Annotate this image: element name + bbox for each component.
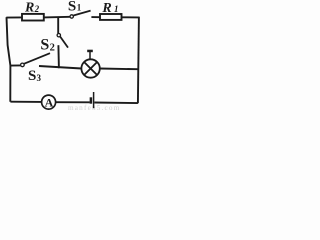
wire ammeter to battery [56, 101, 90, 103]
svg-text:A: A [45, 95, 54, 109]
ammeter A [42, 95, 56, 109]
switch S3 blade [24, 53, 50, 64]
left vertical wire [7, 17, 11, 102]
wire R1 to top-right corner [122, 16, 140, 18]
lamp X diagonals [84, 62, 97, 75]
lamp stub T-bar [87, 50, 93, 53]
switch S1 contact circle [70, 15, 73, 18]
switch S1 blade [73, 11, 90, 16]
right vertical wire [138, 17, 139, 104]
node stub to S2 [57, 18, 59, 34]
lamp L circle [81, 59, 99, 77]
battery long thin plate [93, 92, 95, 108]
wire top-left to R2 [6, 16, 21, 18]
bottom wire left corner to ammeter [10, 101, 41, 103]
middle wire lamp to right vertical [100, 68, 138, 71]
switch S2 contact circle [57, 34, 60, 37]
switch S2 lower terminal wire [57, 45, 60, 68]
svg-text:S1: S1 [68, 0, 82, 15]
battery short thick plate [90, 97, 93, 103]
wire S1 to R1 [91, 16, 100, 18]
resistor R1 [100, 14, 122, 20]
svg-text:R1: R1 [101, 1, 118, 16]
wire battery to bottom-right corner [94, 102, 137, 105]
wire R2 to S1 [44, 16, 70, 19]
middle wire S3 to lamp [39, 66, 82, 69]
lamp top stub [89, 52, 91, 59]
middle wire left to S3 [11, 64, 21, 66]
resistor R2 [22, 14, 44, 21]
switch S3 contact circle [21, 63, 25, 67]
switch S2 blade [60, 37, 68, 48]
